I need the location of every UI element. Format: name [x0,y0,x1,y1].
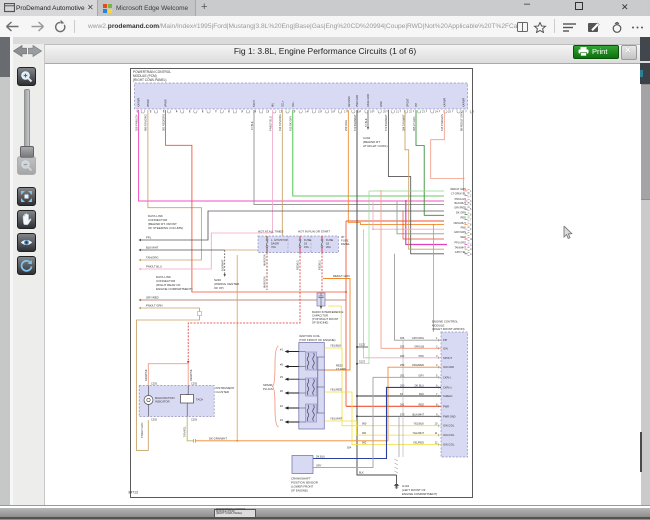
tach gauge [181,395,194,404]
share icon [613,25,621,33]
svg-text:961: 961 [362,431,367,435]
close X button [621,45,637,60]
spark plug numbers [280,348,283,423]
wire BLK SHIELD row 7 lower (black) [357,395,441,397]
svg-text:DCL+: DCL+ [281,100,284,107]
wire GRY CKP- (gray) [313,377,441,467]
svg-text:RED: RED [419,402,425,406]
svg-text:C293: C293 [151,383,158,386]
svg-text:(TOP FRONT OF ENGINE): (TOP FRONT OF ENGINE) [299,338,336,342]
svg-text:261: 261 [400,373,405,377]
spark plugs text [263,383,273,391]
svg-text:ORG/RED: ORG/RED [412,363,424,367]
node pink junction [372,228,374,230]
924 labels near bus bottom [347,447,364,475]
wire PNK row 9u riser (pink) [373,201,444,229]
svg-text:PPL: PPL [146,236,152,240]
wire ORG/RED KIK row 4 lower connector (orange) [388,367,441,441]
PCM pin row ticks [137,110,473,113]
svg-text:570: 570 [400,412,405,416]
svg-text:KAPWR: KAPWR [443,98,446,107]
svg-text:PPL/ORG: PPL/ORG [454,241,466,245]
wire color labels below band [134,112,463,131]
svg-text:DCL-: DCL- [292,101,295,107]
C204 text [363,136,388,148]
svg-text:PNK/LT BLU: PNK/LT BLU [268,116,272,131]
wire RED row 7 upper (red thick) [346,220,444,222]
row edge stubs [465,191,468,254]
svg-text:CASE GND: CASE GND [367,94,370,107]
refresh [56,22,65,31]
wire BLK/WHT pin20 step to row 14u (dark) [388,110,444,254]
upper right connector row wires entering page edge [451,187,467,254]
svg-text:VPWR: VPWR [165,99,168,107]
svg-text:C293: C293 [151,419,158,422]
hand button [17,210,36,229]
svg-text:DK GRN/WHT: DK GRN/WHT [209,437,227,441]
svg-text:980 TAN/ORG: 980 TAN/ORG [144,114,148,131]
wire PPL/ORG branch down to row 12 (magenta thick) [406,201,447,245]
svg-text:915 DK GRN: 915 DK GRN [289,116,293,131]
wire GRN row 2 lower connector (salmon) [381,190,441,348]
wire ORG riser mid-left (orange) [236,255,238,441]
engine control module title [432,320,465,332]
svg-text:RED/LG: RED/LG [296,260,300,270]
svg-text:359 PNK/LGN: 359 PNK/LGN [134,114,138,131]
fuse panel internal dividers [288,236,311,253]
zoom-out button (disabled) [17,156,36,175]
svg-text:BLK: BLK [419,392,424,396]
wire TAN/YEL cluster to splice (olive) [187,417,193,441]
svg-text:IGN COIL: IGN COIL [443,433,455,437]
wire BLK/WHT left row into S230 (dark) [141,249,225,251]
more dots [632,27,634,29]
wire PNK/LT BLU pin11 elbow to left row (pink) [141,110,273,269]
svg-text:GRY: GRY [316,465,322,468]
wire PNK/LT GRN page-edge riser (tan) [136,316,199,451]
fuse panel box [258,236,339,253]
svg-text:MIL: MIL [272,102,275,107]
wire RED/LT GRN pin26 to row 1u (salmon) [464,110,468,191]
svg-text:914 TAN/ORG: 914 TAN/ORG [278,114,282,131]
fuse 2 symbol and label [299,236,301,253]
wire ORG pin17 to row 8u (orange) [348,110,444,225]
svg-text:OF I/P): OF I/P) [214,286,224,290]
left row arrowheads [138,239,141,309]
svg-text:361: 361 [400,402,405,406]
cluster top pin labels C293 [151,383,198,422]
svg-text:SPOUT: SPOUT [443,356,452,360]
svg-text:PNK/LGN: PNK/LGN [455,197,467,201]
svg-text:RED/LG: RED/LG [318,260,322,270]
svg-text:960: 960 [362,422,367,426]
svg-text:IGN GND: IGN GND [443,365,454,369]
svg-text:YEL/BLK: YEL/BLK [413,422,424,426]
svg-text:MAROON: MAROON [263,276,267,288]
svg-text:926: 926 [400,336,405,340]
svg-text:BLK/WHT: BLK/WHT [412,412,424,416]
svg-text:CLUSTER: CLUSTER [216,390,230,394]
wire GRY/GRN row 10u (gray green) [397,201,444,234]
wire YEL tach feed segment (yellow) [328,306,341,348]
left row labels [146,236,163,308]
svg-text:HOT IN RUN OR START: HOT IN RUN OR START [298,230,330,234]
back arrow [7,22,19,31]
svg-text:TACH: TACH [253,100,256,107]
node magenta junction [405,200,407,202]
svg-text:FUSE: FUSE [304,238,311,242]
double arrow icon [13,45,42,57]
svg-text:VPWR: VPWR [147,99,150,107]
svg-text:IGN COIL: IGN COIL [443,443,455,447]
wire TAN/ORG pin2 elbow down to DLC row (tan) [141,110,201,260]
PCM pin numbers [137,110,464,114]
svg-text:FUSE: FUSE [326,238,333,242]
svg-text:GRY/RED: GRY/RED [146,296,159,300]
cluster title [216,386,235,394]
EC connector pin ticks [438,339,440,446]
svg-text:MAROON: MAROON [263,254,267,266]
fuse 1 symbol and label [266,236,268,253]
wire RED riser to rows 7u and PWR (red) [345,221,347,406]
svg-text:PWR GND: PWR GND [356,95,359,107]
wire MAROON fuse1 output (dashed maroon) [266,253,268,291]
svg-text:18: 18 [304,242,307,246]
DLC steering column text [148,214,183,230]
svg-text:PLUGS: PLUGS [263,387,273,391]
svg-text:C293: C293 [191,419,198,422]
wire RED/LG fuse2 output (dashed red) [188,253,300,362]
svg-text:TACH: TACH [196,398,203,402]
svg-text:PWR: PWR [443,404,449,408]
svg-text:395 LT GRN: 395 LT GRN [412,117,416,131]
web note icon [588,23,598,32]
wire GRY/RED left row (thin dark red) [141,299,346,301]
PCM pin names inside band [138,94,466,107]
node bus junction S122 [356,363,358,365]
hub icon [563,23,576,25]
reading view book icon [518,23,528,32]
svg-text:GRY/YEL: GRY/YEL [455,250,467,254]
svg-text:BLK/WHT: BLK/WHT [220,259,224,271]
svg-text:YEL/BLK: YEL/BLK [330,344,341,348]
wire RED row 11u (thin red) [403,211,444,239]
svg-text:PANEL: PANEL [341,242,350,246]
svg-text:RED: RED [461,235,467,239]
svg-text:BLK: BLK [359,472,364,475]
svg-text:5A/DR: 5A/DR [271,242,279,246]
wire DK BLU CKP+ (blue) [313,387,441,458]
PCM title text [133,70,171,82]
wire BLK/WHT PWR GND row 9 lower (dark gray) [357,415,441,417]
svg-text:PNK: PNK [461,225,467,229]
sensor caption [291,477,318,493]
wire GRY/ORG row 1 lower connector (gray) [395,254,442,340]
svg-text:BLK/WHT: BLK/WHT [454,201,466,205]
svg-text:LT GRN/YEL: LT GRN/YEL [451,192,466,196]
wire BLK/WHT pin18 main ground bus (dark gray) [357,110,397,475]
svg-text:PNK/LT BLU: PNK/LT BLU [146,265,162,269]
svg-text:515 PNK/GRN: 515 PNK/GRN [440,114,444,131]
wire PNK GPS row 3 lower connector [364,229,442,358]
refresh button [17,256,36,275]
svg-text:YEL/WHT: YEL/WHT [330,417,343,421]
svg-text:20A: 20A [326,245,331,249]
svg-text:GRY: GRY [418,373,424,377]
crankshaft position sensor box [292,456,313,474]
eye button [17,233,36,252]
wire PNK/LGN pin1 to DLC rows bus (magenta) [139,110,444,201]
wire PNK/GRN pin25 jog (salmon) [431,110,464,179]
spark plugs brace [273,346,279,427]
radio interference capacitor [317,293,325,306]
svg-text:S123: S123 [359,360,366,364]
svg-text:IGN GND: IGN GND [348,96,351,107]
svg-text:YEL/WHT: YEL/WHT [412,431,424,435]
svg-text:OF STEERING COLUMN): OF STEERING COLUMN) [148,226,183,230]
wire BLK pin10 to row 4u (gray) [254,110,444,205]
svg-text:YEL/RED: YEL/RED [330,388,342,392]
coil winding 3 [306,404,317,422]
ground G104 [396,475,398,484]
svg-text:RED/PNK: RED/PNK [189,369,193,381]
slider thumb [20,146,34,158]
wire GRY shield drain stub [398,416,400,457]
star [535,23,546,33]
EC row labels: wire number, color, pin, name [362,336,456,446]
bus branch stub S122 [357,346,368,348]
wire LT GRN riser to bus stub (light green) [357,191,444,364]
svg-text:BLK/WHT: BLK/WHT [146,246,159,250]
svg-text:924: 924 [347,447,352,450]
instrument cluster box [139,386,214,417]
svg-text:GRY/ORG: GRY/ORG [412,336,424,340]
svg-text:RED/LT GRN: RED/LT GRN [451,187,467,191]
wire DK GRN pin13 to row 6u (dark green) [293,110,444,196]
svg-text:TAN/ORG: TAN/ORG [146,256,159,260]
wire GRY screen drain from row 1 [402,340,404,457]
svg-text:S122: S122 [359,343,366,347]
svg-text:361 RED/ORG: 361 RED/ORG [161,114,165,131]
svg-text:GND: GND [380,101,383,107]
svg-text:AT RIGHT COWL): AT RIGHT COWL) [363,144,388,148]
svg-text:(RIGHT COWL PANEL): (RIGHT COWL PANEL) [133,78,166,82]
svg-text:962: 962 [362,441,367,445]
svg-text:IGN: IGN [443,346,448,350]
spark plug leads [288,352,299,423]
wire RED/LG fuse3 output (dashed red) [321,253,323,293]
wire LT GRN/YEL pin23 to row 2u (green) [416,110,444,215]
engine control module connector box [441,332,468,457]
svg-text:YEL/RED: YEL/RED [413,441,424,445]
wire BLK pin19 stub to C204 [367,110,369,127]
wire YEL/BLK coil output to IGN COIL row10 (yellow) [325,348,442,426]
wire PNK/LT GRN left row to splice (tan) [141,308,200,312]
ignition coil title [299,334,336,342]
wire RED/LT GRN capacitor branch to coil (orange) [323,279,350,371]
svg-text:570 BLK/WHT: 570 BLK/WHT [353,114,357,131]
upper right pin ticks and numbers [468,189,470,255]
S230 splice dashed lead [224,250,226,274]
svg-text:TAN/WHT: TAN/WHT [454,245,466,249]
svg-text:DK BLU: DK BLU [415,383,424,387]
wire PPL left row to row 5u (dark purple) [141,211,444,240]
svg-text:C293: C293 [191,383,198,386]
window controls [524,0,530,10]
diagram page border [131,69,473,498]
wire RED pin3 stepped feed (red) [166,110,347,292]
fit button [17,187,36,206]
svg-text:KAPWR: KAPWR [138,98,141,107]
wire YEL/WHT coil output to IGN COIL row11 (yellow) [325,421,442,435]
svg-text:PIP: PIP [415,103,418,107]
svg-text:260: 260 [400,383,405,387]
svg-text:OF ENGINE): OF ENGINE) [312,321,328,325]
RED LT GRN coil input label [336,364,346,372]
svg-text:RED/PNK: RED/PNK [144,369,148,381]
svg-text:DK BLU: DK BLU [316,456,325,459]
svg-text:57 BLK: 57 BLK [250,121,254,130]
print button [573,45,619,59]
G104 caption [402,484,437,496]
svg-text:CKP(+): CKP(+) [443,385,452,389]
C204 arrowhead [367,127,369,130]
wire ORG/WHT drop to EC module (orange) [433,225,435,332]
svg-text:L. GTO/STOP: L. GTO/STOP [271,238,288,242]
svg-text:570 BLK/WHT: 570 BLK/WHT [384,114,388,131]
slider track [24,89,30,149]
svg-text:SPOUT: SPOUT [406,98,409,107]
coil internal leads [299,352,325,423]
svg-text:70A: 70A [271,245,276,249]
wire RED PWR row lower connector (red thick) [346,405,441,407]
svg-text:PWR GND: PWR GND [443,414,456,418]
ignition coil box [299,343,325,430]
shield termination ticks [395,459,399,473]
svg-text:HOT AT ALL TIMES: HOT AT ALL TIMES [258,230,283,234]
splice bars [194,439,196,443]
svg-text:SHIELD: SHIELD [443,394,452,398]
forward arrow [32,22,44,31]
wire TAN/WHT pin22 to row 13u (tan) [405,110,444,249]
svg-text:923: 923 [400,354,405,358]
svg-text:PNK: PNK [419,354,425,358]
svg-text:88 RED/LT GRN: 88 RED/LT GRN [459,112,463,131]
svg-text:LT GRN: LT GRN [336,367,346,371]
svg-text:TAN/YEL: TAN/YEL [183,426,187,437]
svg-text:KAPWR: KAPWR [463,98,466,107]
coil winding 1 [306,352,317,370]
fuse panel labels [258,230,330,234]
splice S symbol [198,312,202,316]
node orange junction [236,440,238,442]
cluster internal leads [148,386,188,417]
sensor pin labels [303,456,325,468]
svg-text:RED/LT GRN: RED/LT GRN [333,274,350,278]
I/P fuse panel text [341,235,350,246]
svg-text:GRY/GRN: GRY/GRN [454,230,466,234]
svg-text:15A: 15A [304,245,309,249]
svg-text:PIP: PIP [443,338,447,342]
svg-text:57 BLK: 57 BLK [364,118,368,127]
svg-text:IGN COIL: IGN COIL [443,424,455,428]
node red junction [345,291,347,293]
zoom-in button [17,67,36,86]
PCM connector band [135,83,468,109]
svg-text:GRY/RED: GRY/RED [454,205,466,209]
svg-text:(RIGHT FRONT APRON): (RIGHT FRONT APRON) [432,327,465,331]
svg-text:MALFUNCTION: MALFUNCTION [155,396,174,400]
svg-text:ENGINE COMPARTMENT): ENGINE COMPARTMENT) [156,287,193,291]
wire ORG bottom horizontal (orange) [199,440,388,442]
wire TAN/ORG pin12 down to S230 (tan) [225,110,282,250]
DLC engine compartment text [156,275,193,291]
svg-text:925: 925 [400,344,405,348]
svg-text:259: 259 [400,363,405,367]
svg-text:INDICATOR: INDICATOR [155,400,170,404]
svg-text:RED: RED [461,216,467,220]
svg-text:OF ENGINE): OF ENGINE) [291,489,308,493]
svg-text:ORG/WHT: ORG/WHT [453,221,466,225]
coil winding 2 [306,378,317,396]
wire YEL/RED coil output to IGN COIL row12 (yellow) [325,392,442,445]
svg-text:ORG/LB: ORG/LB [414,344,424,348]
svg-text:PNK/LT GRN: PNK/LT GRN [146,304,163,308]
svg-text:CKP(-): CKP(-) [443,375,451,379]
svg-text:84713: 84713 [129,491,139,495]
svg-text:259 ORG: 259 ORG [344,120,348,131]
spark plug arrowheads [285,350,289,424]
instrument cluster top feed RED/PNK (salmon) [148,364,188,386]
svg-text:ENGINE COMPARTMENT): ENGINE COMPARTMENT) [402,492,437,496]
svg-text:PNK/LT GRN: PNK/LT GRN [140,423,144,438]
svg-text:DK GRN: DK GRN [456,211,466,215]
node salmon junction [463,178,465,180]
fuse 3 symbol and label [321,236,323,253]
svg-text:18: 18 [326,242,329,246]
malfunction indicator lamp [144,396,153,405]
